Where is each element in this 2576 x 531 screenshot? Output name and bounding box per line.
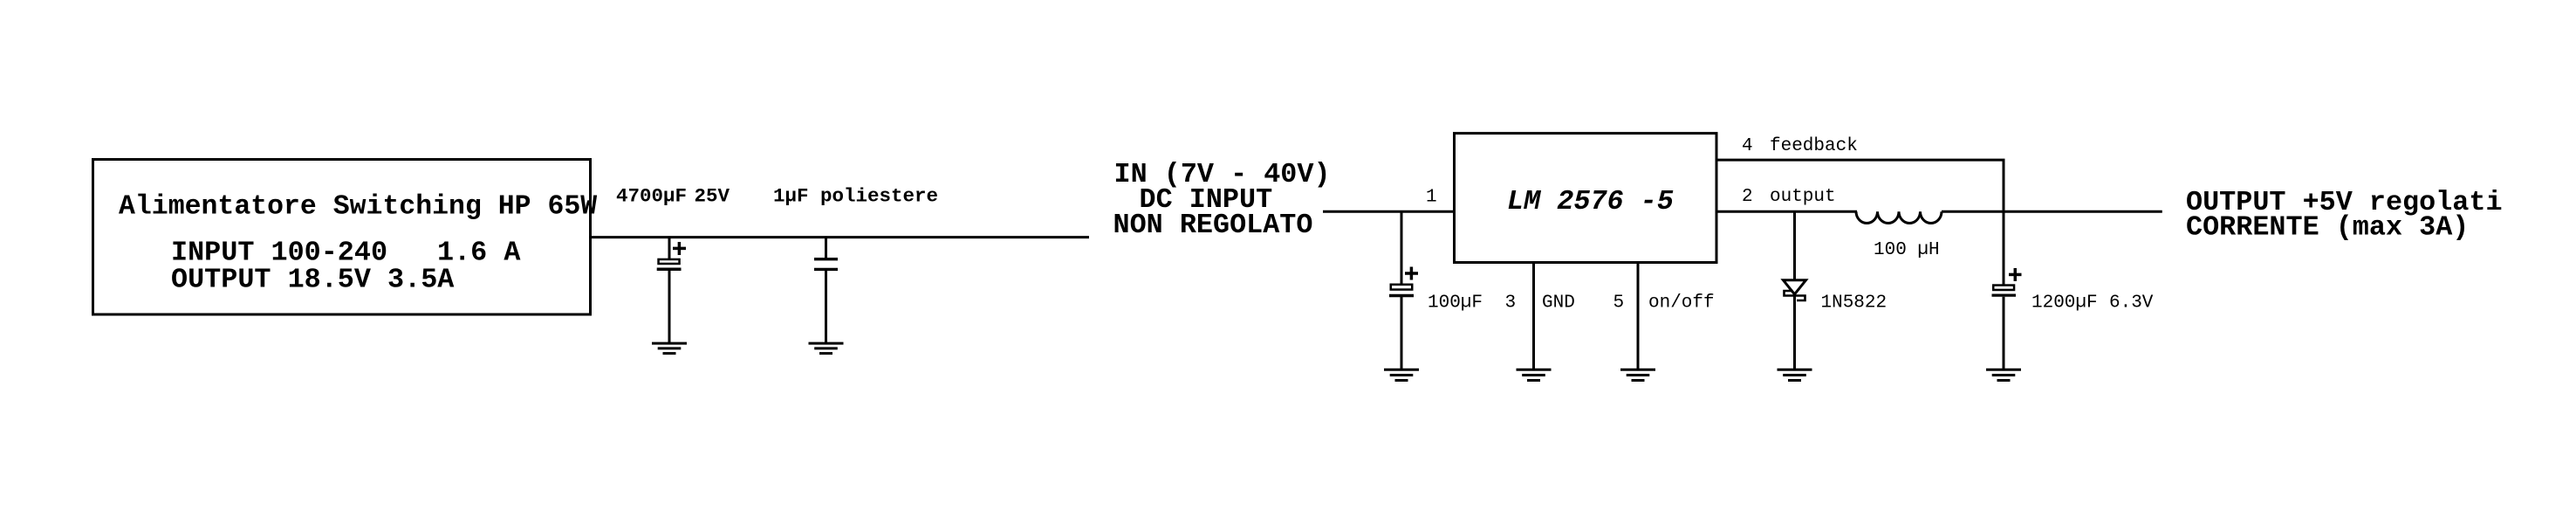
ground pin 5 — [1620, 369, 1655, 380]
ground C4 — [1986, 369, 2021, 380]
svg-text:on/off: on/off — [1648, 293, 1715, 314]
wire: pin 3 to ground — [1532, 263, 1535, 369]
svg-text:OUTPUT 18.5V 3.5A: OUTPUT 18.5V 3.5A — [171, 265, 455, 296]
svg-text:Alimentatore Switching HP 65W: Alimentatore Switching HP 65W — [119, 192, 597, 223]
capacitor C4 1200uF — [1992, 211, 2022, 369]
ground pin 3 — [1517, 369, 1552, 380]
svg-text:1µF poliestere: 1µF poliestere — [773, 184, 938, 207]
svg-text:GND: GND — [1542, 293, 1575, 314]
ground C1 — [652, 343, 687, 354]
svg-text:3: 3 — [1505, 293, 1517, 314]
power supply box — [93, 160, 591, 315]
svg-text:4700µF: 4700µF — [616, 184, 687, 207]
svg-text:100 µH: 100 µH — [1874, 240, 1940, 260]
svg-text:1: 1 — [1426, 188, 1437, 208]
wire: feedback loop pin 4 — [1716, 160, 2004, 210]
ground C3 — [1384, 369, 1419, 380]
svg-text:5: 5 — [1613, 293, 1625, 314]
ground D1 — [1778, 369, 1812, 380]
op-amp U1 LM2576 box — [1455, 134, 1717, 263]
wire: pin 2 output to inductor — [1716, 210, 1857, 213]
svg-text:CORRENTE (max 3A): CORRENTE (max 3A) — [2186, 212, 2469, 244]
svg-text:6.3V: 6.3V — [2109, 293, 2154, 314]
capacitor C1 4700uF electrolytic — [657, 238, 686, 342]
wire: pin 5 to ground — [1637, 263, 1640, 369]
svg-text:LM 2576 -5: LM 2576 -5 — [1507, 186, 1674, 217]
diode D1 1N5822 schottky — [1784, 211, 1806, 369]
wire: inductor to output — [1942, 210, 2162, 213]
svg-text:NON REGOLATO: NON REGOLATO — [1113, 210, 1313, 241]
ground C2 — [809, 343, 844, 354]
wire: PSU output bus — [591, 236, 1090, 238]
capacitor C2 1uF polyester — [814, 238, 838, 342]
svg-text:4: 4 — [1742, 136, 1753, 156]
inductor L1 100uH — [1856, 211, 1942, 223]
svg-text:1N5822: 1N5822 — [1821, 293, 1887, 314]
svg-text:output: output — [1770, 187, 1836, 207]
svg-text:feedback: feedback — [1770, 136, 1858, 156]
capacitor C3 100uF — [1389, 211, 1418, 369]
wire: input node to pin 1 — [1323, 210, 1455, 213]
svg-text:100µF: 100µF — [1428, 293, 1483, 314]
svg-text:25V: 25V — [695, 184, 730, 207]
svg-text:1200µF: 1200µF — [2031, 293, 2098, 314]
svg-text:2: 2 — [1742, 187, 1753, 207]
